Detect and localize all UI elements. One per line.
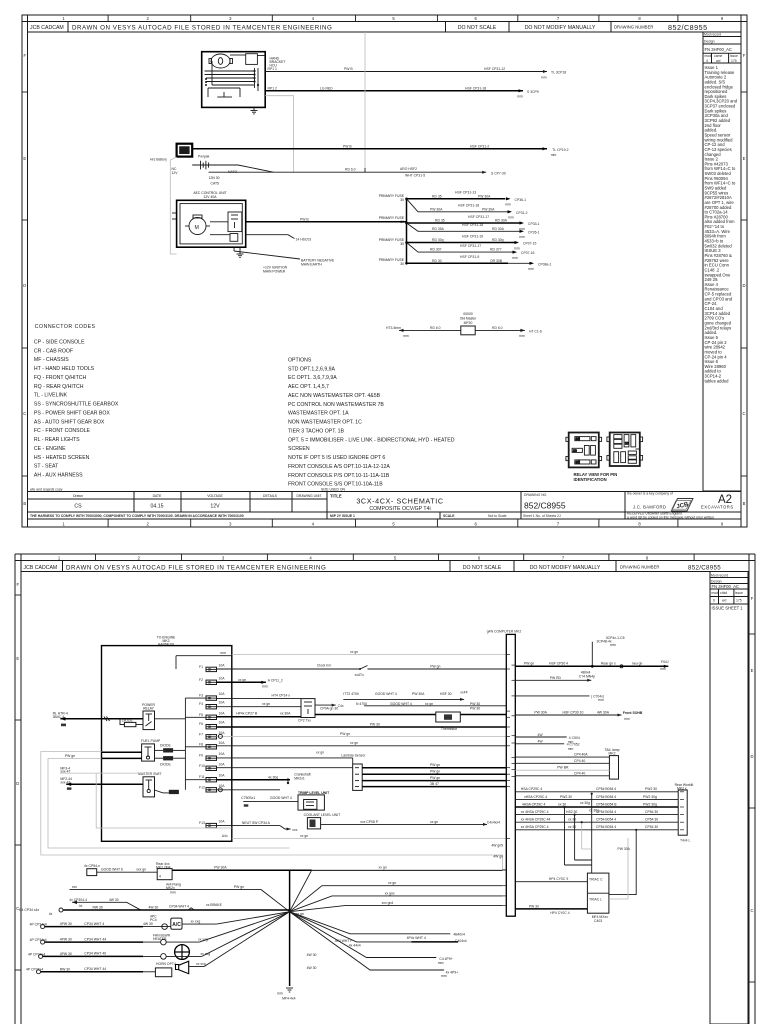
svg-text:30: 30 xyxy=(573,449,577,453)
svg-text:WHT CP31-5: WHT CP31-5 xyxy=(405,174,425,178)
svg-text:85: 85 xyxy=(576,461,580,465)
relay K1 xyxy=(246,54,258,65)
row y889 gray xyxy=(70,890,290,912)
svg-text:PW B: PW B xyxy=(343,144,352,148)
faint harness line A xyxy=(265,96,293,173)
label HCU xyxy=(270,57,286,68)
svg-text:C: C xyxy=(742,411,745,416)
svg-text:RP1 2: RP1 2 xyxy=(268,87,278,91)
svg-text:HSF CP31-2: HSF CP31-2 xyxy=(470,144,489,148)
svg-text:CP36-1: CP36-1 xyxy=(515,198,527,202)
svg-text:mm: mm xyxy=(519,235,525,239)
svg-text:HSF CP31-18: HSF CP31-18 xyxy=(462,223,483,227)
svg-text:issue: issue xyxy=(730,54,738,58)
svg-text:10A: 10A xyxy=(219,752,226,756)
fuse F12 xyxy=(206,788,217,792)
svg-text:4: 4 xyxy=(312,522,315,527)
svg-text:tables added: tables added xyxy=(705,378,730,383)
svg-text:CP - SIDE CONSOLE: CP - SIDE CONSOLE xyxy=(34,340,85,346)
svg-text:EC OPT1. 3,6,7,9,9A: EC OPT1. 3,6,7,9,9A xyxy=(288,375,337,381)
svg-text:NEUT SW CP34 A: NEUT SW CP34 A xyxy=(242,821,271,825)
svg-text:C404x4: C404x4 xyxy=(455,939,467,943)
svg-text:PW gn: PW gn xyxy=(234,885,244,889)
svg-text:mm: mm xyxy=(508,216,514,220)
svg-text:PW2 30g: PW2 30g xyxy=(643,795,657,799)
svg-text:wd: wd xyxy=(716,59,720,63)
svg-text:ARO HSF2: ARO HSF2 xyxy=(400,167,417,171)
bus bottom left pins xyxy=(502,870,506,906)
svg-text:10A: 10A xyxy=(219,774,226,778)
svg-text:CR - CAB ROOF: CR - CAB ROOF xyxy=(34,348,73,354)
diode D11 xyxy=(163,748,173,752)
svg-text:4x: 4x xyxy=(49,912,53,916)
svg-text:2: 2 xyxy=(147,16,150,21)
svg-text:came: came xyxy=(714,54,722,58)
svg-text:PW 30A: PW 30A xyxy=(430,207,443,211)
bus left small labels xyxy=(491,844,503,859)
svg-text:CP34 WHT 44: CP34 WHT 44 xyxy=(84,967,106,971)
svg-text:Clock hrn: Clock hrn xyxy=(317,664,331,668)
svg-text:JCB CADCAM: JCB CADCAM xyxy=(30,25,64,31)
svg-text:mm: mm xyxy=(277,991,283,995)
svg-text:10A: 10A xyxy=(219,711,226,715)
wire harness inside U1 xyxy=(205,61,259,97)
heater label xyxy=(153,934,171,942)
svg-text:mm: mm xyxy=(262,685,268,689)
svg-text:PW 30: PW 30 xyxy=(370,722,380,726)
svg-text:HS - HEATED SCREEN: HS - HEATED SCREEN xyxy=(34,455,90,461)
svg-text:F10: F10 xyxy=(199,764,205,768)
wire battery to CP7 xyxy=(219,164,238,166)
svg-text:HSF CP31-13: HSF CP31-13 xyxy=(455,191,476,195)
svg-text:4 C504: 4 C504 xyxy=(569,736,580,740)
svg-text:COOLANT LEVEL UNIT: COOLANT LEVEL UNIT xyxy=(304,813,341,817)
AEC unit box U2 xyxy=(177,200,246,247)
svg-text:NOTE IF OPT 5 IS USED IGNORE O: NOTE IF OPT 5 IS USED IGNORE OPT 6 xyxy=(288,455,385,461)
svg-text:CP54 B054 B: CP54 B054 B xyxy=(596,802,617,806)
ignition unit box U1 xyxy=(202,52,266,108)
revision sidebar text block xyxy=(705,65,738,383)
svg-text:mm: mm xyxy=(170,890,176,894)
svg-text:THE HARNESS TO COMPLY WITH 700: THE HARNESS TO COMPLY WITH 7000/3000, CO… xyxy=(30,514,244,518)
svg-text:g4N COMPUTER MK2: g4N COMPUTER MK2 xyxy=(487,630,522,634)
svg-text:VOLTAGE: VOLTAGE xyxy=(207,494,223,498)
svg-text:TIER 3 TACHO OPT. 1B: TIER 3 TACHO OPT. 1B xyxy=(288,429,345,435)
svg-text:Old Master: Old Master xyxy=(460,317,477,321)
svg-text:4P4x WHT 4: 4P4x WHT 4 xyxy=(407,936,426,940)
svg-text:HSF CP31-9: HSF CP31-9 xyxy=(460,255,479,259)
svg-text:RP1 1: RP1 1 xyxy=(268,67,278,71)
margin zone ticks page1 xyxy=(22,92,747,476)
svg-text:RD 30g: RD 30g xyxy=(432,238,444,242)
label tail lamp xyxy=(604,748,619,756)
svg-text:OPT. 5 = IMMOBILISER - LIVE LI: OPT. 5 = IMMOBILISER - LIVE LINK - BIDIR… xyxy=(288,437,455,443)
svg-text:DETAILS: DETAILS xyxy=(263,494,278,498)
svg-text:DRAWN ON VESYS AUTOCAD FILE ST: DRAWN ON VESYS AUTOCAD FILE STORED IN TE… xyxy=(72,25,332,32)
wire row 838 xyxy=(232,837,508,839)
page 2 frame xyxy=(15,554,755,1024)
sidebar p2 xyxy=(710,572,748,1024)
svg-text:PW gn: PW gn xyxy=(340,732,350,736)
battery B1 xyxy=(192,161,219,170)
svg-text:852/C8955: 852/C8955 xyxy=(688,565,721,572)
svg-text:CP54 B054 4: CP54 B054 4 xyxy=(596,795,616,799)
svg-text:HS2 30: HS2 30 xyxy=(566,810,577,814)
svg-text:SCALE: SCALE xyxy=(443,514,455,518)
svg-text:C4x4xx4: C4x4xx4 xyxy=(487,820,500,824)
fuse F0 xyxy=(230,234,238,242)
svg-text:CONNECTOR CODES: CONNECTOR CODES xyxy=(35,324,96,330)
svg-text:mm: mm xyxy=(517,95,523,99)
svg-text:C4x: C4x xyxy=(338,704,344,708)
wire fuse F5 right xyxy=(475,329,525,331)
svg-text:AEC OPT. 1,4,5,7: AEC OPT. 1,4,5,7 xyxy=(288,384,329,390)
wire battery main feed xyxy=(192,148,547,150)
options text xyxy=(288,358,455,488)
svg-text:PW 30A: PW 30A xyxy=(534,711,547,715)
svg-text:7: 7 xyxy=(557,16,560,21)
svg-text:B: B xyxy=(743,501,746,506)
wire to trimp xyxy=(243,800,298,802)
svg-text:RL - REAR LIGHTS: RL - REAR LIGHTS xyxy=(34,437,80,443)
svg-text:FQ - FRONT Q/HITCH: FQ - FRONT Q/HITCH xyxy=(34,375,87,381)
star wires down-right 2 xyxy=(290,912,412,942)
svg-text:xx 30A: xx 30A xyxy=(280,712,291,716)
svg-text:1: 1 xyxy=(62,16,65,21)
svg-text:6: 6 xyxy=(475,16,478,21)
svg-text:HP4 CY0C 9: HP4 CY0C 9 xyxy=(549,877,569,881)
svg-text:MF4-4x4: MF4-4x4 xyxy=(282,997,295,1001)
svg-text:CP4 40A: CP4 40A xyxy=(574,753,588,757)
svg-text:HSF CP30 4: HSF CP30 4 xyxy=(549,662,568,666)
lamp cluster below xyxy=(579,671,595,679)
svg-text:xx xxg: xx xxg xyxy=(191,920,201,924)
svg-text:HSF CP31-18: HSF CP31-18 xyxy=(465,86,486,90)
wire relay feed xyxy=(60,718,143,720)
svg-text:4P4 WHT P: 4P4 WHT P xyxy=(335,939,354,943)
svg-text:mm: mm xyxy=(505,203,511,207)
svg-text:HSF 30: HSF 30 xyxy=(440,692,452,696)
svg-text:6: 6 xyxy=(475,522,478,527)
svg-text:FRONT CONSOLE P/S OPT.10-11-11: FRONT CONSOLE P/S OPT.10-11-11A-11B xyxy=(288,473,390,479)
svg-text:10A: 10A xyxy=(219,692,226,696)
svg-text:PW BR: PW BR xyxy=(557,766,569,770)
contactor K2 xyxy=(228,212,242,232)
svg-text:CP26-1: CP26-1 xyxy=(528,230,540,234)
wire row 745 xyxy=(217,745,508,747)
inline fuse F5 xyxy=(461,326,475,335)
svg-text:1: 1 xyxy=(58,555,61,560)
wire coolant to bus xyxy=(321,823,487,825)
wire fuse2b CP26-1 xyxy=(407,223,520,231)
AC unit xyxy=(171,918,182,929)
svg-text:10A: 10A xyxy=(219,762,226,766)
svg-text:3B 47: 3B 47 xyxy=(430,782,439,786)
svg-text:CP34 WHT 40: CP34 WHT 40 xyxy=(84,952,106,956)
svg-text:PW gn: PW gn xyxy=(430,763,440,767)
svg-text:6: 6 xyxy=(478,555,481,560)
svg-text:HEATER: HEATER xyxy=(153,937,167,941)
svg-text:TITLE: TITLE xyxy=(330,494,342,499)
svg-text:OPTIONS: OPTIONS xyxy=(288,358,312,364)
svg-text:F8: F8 xyxy=(199,742,203,746)
svg-text:Mod record: Mod record xyxy=(704,33,721,37)
wire row 699 labels xyxy=(343,698,464,700)
svg-text:12N 30: 12N 30 xyxy=(209,176,220,180)
header row xyxy=(28,31,742,33)
svg-text:HSF CP31-12: HSF CP31-12 xyxy=(484,67,505,71)
svg-text:4W 30: 4W 30 xyxy=(109,898,119,902)
svg-text:4: 4 xyxy=(706,59,708,63)
svg-text:xx gn: xx gn xyxy=(430,820,438,824)
svg-text:4B40x4: 4B40x4 xyxy=(453,932,465,936)
svg-text:3: 3 xyxy=(229,522,232,527)
svg-text:FUEL PUMP: FUEL PUMP xyxy=(141,739,161,743)
svg-text:4x 30g: 4x 30g xyxy=(268,775,278,779)
svg-text:8: 8 xyxy=(638,522,641,527)
svg-text:xx gn: xx gn xyxy=(425,702,433,706)
label primary fuse 2 xyxy=(379,216,405,224)
jcb logo xyxy=(672,499,694,512)
wire row 711 xyxy=(364,705,507,707)
svg-text:10A: 10A xyxy=(219,721,226,725)
svg-text:4x: 4x xyxy=(79,904,83,908)
worklight wire 6 xyxy=(515,829,678,831)
svg-text:10A: 10A xyxy=(219,820,226,824)
svg-text:xx gn: xx gn xyxy=(300,834,308,838)
top number strip p2 xyxy=(96,554,695,561)
svg-text:HT C1-6: HT C1-6 xyxy=(529,329,542,333)
label relay view caption xyxy=(574,472,618,482)
svg-text:PW gn: PW gn xyxy=(430,770,440,774)
svg-text:mm: mm xyxy=(514,246,520,250)
svg-text:DATE: DATE xyxy=(153,494,163,498)
wire fuse1a CP36-1 xyxy=(407,198,506,200)
svg-text:2: 2 xyxy=(147,522,150,527)
svg-text:AEC NON WASTEMASTER OPT. 4&5B: AEC NON WASTEMASTER OPT. 4&5B xyxy=(288,393,381,399)
ground sym AEC xyxy=(237,247,244,257)
svg-text:mm: mm xyxy=(519,334,525,338)
svg-text:3CX-4CX- SCHEMATIC: 3CX-4CX- SCHEMATIC xyxy=(356,497,443,506)
svg-text:F04J: F04J xyxy=(661,660,669,664)
svg-text:MAIN POWER: MAIN POWER xyxy=(263,270,286,274)
svg-text:CP0A gn 30: CP0A gn 30 xyxy=(320,707,338,711)
svg-text:mm: mm xyxy=(438,961,444,965)
svg-text:S 3CP9: S 3CP9 xyxy=(527,90,539,94)
svg-text:RD 35A: RD 35A xyxy=(432,227,445,231)
svg-text:00000: 00000 xyxy=(463,312,473,316)
svg-text:5: 5 xyxy=(392,16,395,21)
svg-text:CP34 WHT 4: CP34 WHT 4 xyxy=(169,905,189,909)
svg-text:CE - ENGINE: CE - ENGINE xyxy=(34,446,66,452)
power relay K10 xyxy=(142,703,155,711)
svg-text:4: 4 xyxy=(312,16,315,21)
svg-text:RW 30: RW 30 xyxy=(93,906,103,910)
worklight wire 2 xyxy=(515,798,678,800)
svg-text:HP4 CY0C 4: HP4 CY0C 4 xyxy=(550,911,570,915)
svg-text:xx BRAKE: xx BRAKE xyxy=(206,903,223,907)
svg-text:FC - FRONT CONSOLE: FC - FRONT CONSOLE xyxy=(34,428,91,434)
rear fuse box xyxy=(156,862,171,869)
svg-text:4W 30: 4W 30 xyxy=(307,966,317,970)
svg-text:PW gn: PW gn xyxy=(524,662,534,666)
svg-text:xx gn: xx gn xyxy=(238,678,246,682)
svg-text:7: 7 xyxy=(557,522,560,527)
svg-text:DRAWING UNIT: DRAWING UNIT xyxy=(296,494,321,498)
svg-text:9: 9 xyxy=(721,522,724,527)
key switch SW1 xyxy=(211,54,230,68)
svg-text:the owner is a key company of: the owner is a key company of xyxy=(627,492,673,496)
wire row 727 xyxy=(217,726,508,728)
horn driver box xyxy=(155,968,171,977)
label rear worklight xyxy=(675,783,694,791)
svg-text:E: E xyxy=(743,156,746,161)
wire fuse4 CP08A-1 xyxy=(407,262,509,264)
svg-text:30: 30 xyxy=(400,262,404,266)
svg-text:852/C8955: 852/C8955 xyxy=(668,23,708,32)
svg-text:mm: mm xyxy=(568,747,574,751)
wire row 736 xyxy=(217,735,508,737)
svg-text:xxx: xxx xyxy=(72,885,77,889)
svg-text:4x 4P9+: 4x 4P9+ xyxy=(446,970,459,974)
rear box left wire xyxy=(97,871,158,873)
svg-text:MASTER SWIT: MASTER SWIT xyxy=(138,772,162,776)
label top right cluster xyxy=(597,636,625,647)
svg-text:CP2 Txx: CP2 Txx xyxy=(298,719,311,723)
svg-text:CP54 B054 4: CP54 B054 4 xyxy=(596,810,616,814)
star wires down-right 1 xyxy=(290,912,451,934)
bus right wire 735 xyxy=(515,736,566,738)
title block frame xyxy=(28,492,742,520)
wire fuel pump 2 xyxy=(48,757,102,759)
svg-text:Design: Design xyxy=(711,580,722,584)
svg-text:TRIAC C: TRIAC C xyxy=(589,878,603,882)
svg-text:HT3-5mm: HT3-5mm xyxy=(386,326,401,330)
label primary fuse 3 xyxy=(379,238,405,246)
wire U1 pin1 to TL CP18 xyxy=(265,71,547,73)
svg-text:ITT2 4700: ITT2 4700 xyxy=(343,692,359,696)
svg-text:F2: F2 xyxy=(199,678,203,682)
tail lamp connector X3 xyxy=(609,756,618,780)
svg-text:xx 30g: xx 30g xyxy=(580,801,590,805)
svg-text:B4 CP34 x4x: B4 CP34 x4x xyxy=(19,908,39,912)
svg-text:C750Sx1: C750Sx1 xyxy=(241,796,255,800)
svg-text:5: 5 xyxy=(392,522,395,527)
svg-text:86: 86 xyxy=(576,437,580,441)
thermistor TH1 xyxy=(436,712,461,722)
svg-text:mm: mm xyxy=(624,717,630,721)
svg-text:C: C xyxy=(750,908,753,913)
wire row 757 lambda xyxy=(217,757,353,759)
label primary fuse 4 xyxy=(379,258,405,266)
node tick xyxy=(364,168,366,172)
svg-text:CP54 B054 4: CP54 B054 4 xyxy=(596,787,616,791)
svg-text:xx gn: xx gn xyxy=(388,881,396,885)
svg-text:04.15: 04.15 xyxy=(151,504,164,510)
svg-text:Design: Design xyxy=(704,40,715,44)
svg-text:GOOD WHT 4: GOOD WHT 4 xyxy=(390,702,412,706)
svg-text:xx gn: xx gn xyxy=(350,650,358,654)
fuse column F1-F13 xyxy=(199,663,225,827)
svg-text:4PW 30: 4PW 30 xyxy=(60,922,72,926)
svg-text:4PW 30: 4PW 30 xyxy=(60,952,72,956)
wire row 767 crankshaft xyxy=(217,767,353,769)
svg-text:TRIAC L: TRIAC L xyxy=(589,898,602,902)
svg-text:T4x4 L: T4x4 L xyxy=(680,839,690,843)
svg-text:wd: wd xyxy=(722,599,726,603)
svg-text:PW2 30: PW2 30 xyxy=(645,787,657,791)
star wires down-right 4 xyxy=(290,912,445,970)
svg-text:4x 44x4: 4x 44x4 xyxy=(349,944,361,948)
svg-text:CP33-1: CP33-1 xyxy=(528,222,540,226)
svg-text:CP07-16: CP07-16 xyxy=(521,251,534,255)
triac labels below xyxy=(592,915,609,923)
svg-text:10A: 10A xyxy=(219,676,226,680)
svg-text:B: B xyxy=(23,501,26,506)
svg-text:CP54 30: CP54 30 xyxy=(645,810,658,814)
svg-text:GOOD WHT 6: GOOD WHT 6 xyxy=(101,868,123,872)
wire row 698 to sensor xyxy=(217,698,302,700)
svg-text:PW gn: PW gn xyxy=(65,754,75,758)
svg-text:CAT5: CAT5 xyxy=(211,182,220,186)
svg-text:MF - CHASSIS: MF - CHASSIS xyxy=(34,357,69,363)
bus right wire 715 xyxy=(515,714,621,716)
svg-text:4W 30: 4W 30 xyxy=(149,906,159,910)
PAGE 1 xyxy=(22,15,747,527)
svg-text:4: 4 xyxy=(309,555,312,560)
svg-text:PW B: PW B xyxy=(300,217,309,221)
svg-text:TRIMP LEVEL UNIT: TRIMP LEVEL UNIT xyxy=(298,791,330,795)
svg-text:D: D xyxy=(16,781,19,786)
relay view 1 xyxy=(566,433,602,468)
wire master feed xyxy=(66,783,143,785)
motor M2 xyxy=(189,218,206,235)
label battery negative xyxy=(301,259,335,267)
stub from sensor xyxy=(315,704,336,706)
svg-text:HP4x CP27 B: HP4x CP27 B xyxy=(236,712,258,716)
svg-text:neu gn: neu gn xyxy=(632,662,642,666)
svg-text:mm: mm xyxy=(441,974,447,978)
svg-text:PW 30A: PW 30A xyxy=(214,866,227,870)
svg-text:F: F xyxy=(751,596,754,601)
svg-text:xx gn: xx gn xyxy=(316,750,324,754)
svg-text:SCREEN: SCREEN xyxy=(288,446,310,452)
svg-text:xxx: xxx xyxy=(292,828,297,832)
svg-text:xx 30: xx 30 xyxy=(558,802,566,806)
svg-text:xx xxg: xx xxg xyxy=(196,962,206,966)
connector X5 xyxy=(87,869,97,876)
svg-text:HT4 CP14 x: HT4 CP14 x xyxy=(272,694,291,698)
label primary fuse 1 xyxy=(379,194,405,202)
svg-text:xx gn: xx gn xyxy=(379,866,387,870)
wire U1 pin2 to S HSF xyxy=(265,90,523,92)
svg-text:CP34 WHT 44: CP34 WHT 44 xyxy=(84,937,106,941)
svg-text:CP31-2: CP31-2 xyxy=(516,211,528,215)
svg-text:10A: 10A xyxy=(219,784,226,788)
svg-text:F1: F1 xyxy=(199,665,203,669)
gray harness loop 2 xyxy=(48,758,290,848)
svg-text:CP54 30: CP54 30 xyxy=(645,818,658,822)
svg-text:HSF CP31-17: HSF CP31-17 xyxy=(468,215,489,219)
svg-text:xx 4HSA CP29C 4: xx 4HSA CP29C 4 xyxy=(521,825,549,829)
svg-text:J.C. BAMFORD: J.C. BAMFORD xyxy=(633,505,666,510)
svg-text:RD 6.0: RD 6.0 xyxy=(492,326,503,330)
svg-text:6: 6 xyxy=(713,599,715,603)
svg-text:FN 3HF00_AC: FN 3HF00_AC xyxy=(712,584,739,589)
svg-text:xx gn: xx gn xyxy=(262,702,270,706)
svg-text:RW 30: RW 30 xyxy=(60,967,70,971)
svg-text:C?4 MN4p: C?4 MN4p xyxy=(579,675,595,679)
